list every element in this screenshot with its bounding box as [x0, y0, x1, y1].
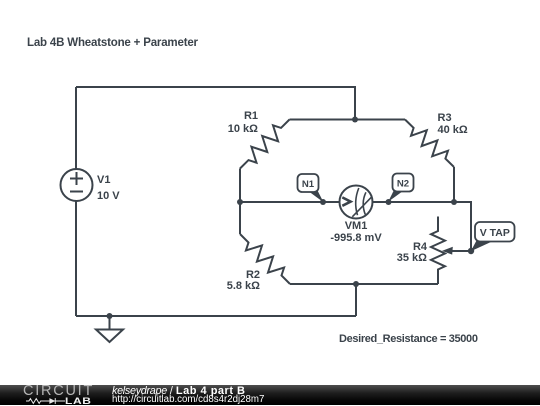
svg-text:V TAP: V TAP: [480, 227, 510, 239]
svg-text:N1: N1: [302, 179, 315, 190]
svg-text:N2: N2: [397, 178, 409, 189]
